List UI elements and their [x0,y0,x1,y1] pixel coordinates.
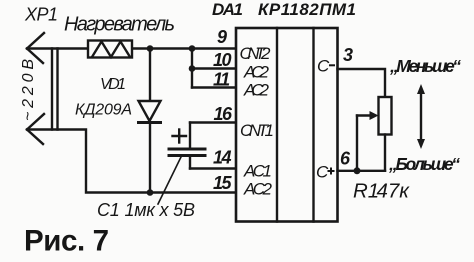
svg-text:AC2: AC2 [243,80,270,99]
label R1 47k [353,180,410,203]
node junction pin10 [189,65,196,72]
pin label C- [317,57,335,76]
connector double contact lines [52,49,58,130]
wire pin 10 [192,67,236,69]
svg-text:6: 6 [340,149,351,169]
svg-text:R1: R1 [353,180,379,203]
node junction diode bottom [147,189,154,196]
pin label C+ [316,163,335,182]
svg-text:„Меньше“: „Меньше“ [389,56,461,76]
svg-text:CNT1: CNT1 [240,121,274,140]
svg-text:DA1: DA1 [212,0,243,19]
svg-text:11: 11 [213,70,230,90]
wire bottom (lower 220V line) [27,130,236,193]
wire pin 3 to potentiometer top [338,69,386,97]
svg-text:AC2: AC2 [243,179,273,198]
svg-text:47к: 47к [377,180,411,203]
svg-text:14: 14 [213,148,232,168]
leader line from C1 label to capacitor [158,157,181,204]
svg-text:С: С [317,57,330,76]
svg-text:15: 15 [213,173,233,193]
capacitor C1 plates [169,149,205,156]
svg-text:С1 1мк х 5В: С1 1мк х 5В [97,200,195,220]
wire pin 16 [190,121,236,123]
svg-text:VD1: VD1 [100,76,126,93]
heater element (Нагреватель) [88,41,132,58]
IC DA1 КР1182ПМ1 box with pin columns [236,28,338,222]
svg-text:Нагреватель: Нагреватель [64,14,175,36]
node junction wiper [354,167,361,174]
diode VD1 symbol [139,101,161,123]
svg-text:3: 3 [343,45,353,65]
wire pin10/11 branch vertical [191,49,193,88]
svg-text:CNT2: CNT2 [240,44,272,63]
svg-text:КД209А: КД209А [75,102,132,119]
svg-text:Рис. 7: Рис. 7 [24,225,109,258]
wire cap C1 bottom lead [189,157,191,169]
wire pin 11 [192,86,236,88]
node junction at pin9 branch [189,45,196,52]
svg-text:ХР1: ХР1 [24,5,58,25]
svg-text:КР1182ПМ1: КР1182ПМ1 [258,0,356,19]
wire diode cathode [149,123,151,193]
wire pin 14 [190,167,236,169]
capacitor C1 plus sign [173,130,187,143]
svg-text:9: 9 [217,27,227,47]
plug XP1 upper prong arrow [27,33,44,63]
node junction at diode top [147,45,154,52]
svg-text:AC1: AC1 [243,161,272,180]
svg-text:10: 10 [213,50,232,70]
wire diode anode [149,49,151,102]
potentiometer R1 body [379,97,392,135]
wire top (220V line to IC pin 9) [27,47,236,49]
svg-text:С: С [316,163,329,182]
wire pin 6 [338,170,386,172]
potentiometer wiper arrow [357,111,379,171]
svg-text:AC2: AC2 [243,62,270,81]
plug XP1 lower prong arrow [27,114,44,144]
wire cap C1 top lead [189,123,191,148]
wire potentiometer bottom lead [384,135,386,171]
svg-text:„Больше“: „Больше“ [388,154,460,174]
svg-text:16: 16 [214,104,234,124]
rotation direction double arrow [417,84,425,149]
